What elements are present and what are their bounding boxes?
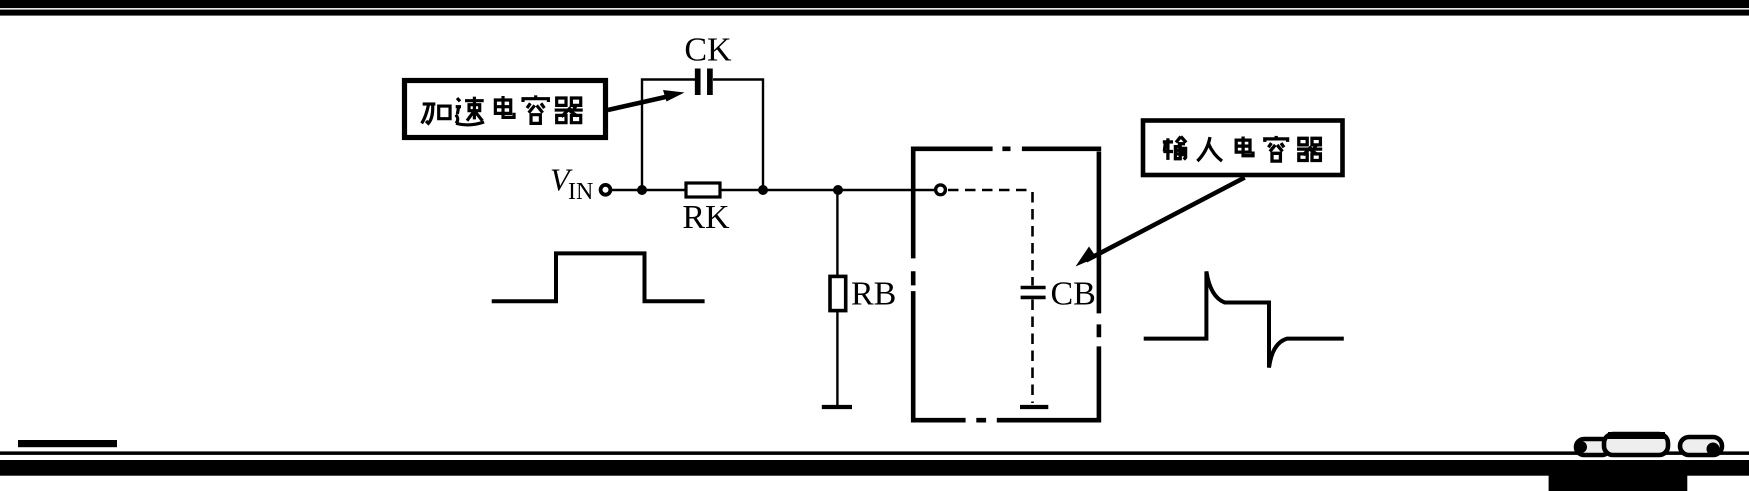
svg-text:CB: CB [1051, 276, 1096, 313]
svg-text:CK: CK [684, 32, 732, 69]
svg-text:IN: IN [568, 179, 593, 205]
svg-text:RK: RK [682, 199, 730, 236]
svg-text:RB: RB [851, 276, 896, 313]
